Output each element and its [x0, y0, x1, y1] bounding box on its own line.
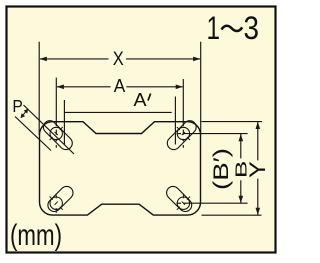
svg-text:B: B — [234, 161, 251, 179]
svg-text:A: A — [134, 89, 148, 110]
svg-text:X: X — [113, 49, 124, 70]
centerline ticks bottom-left — [50, 194, 63, 213]
bolt circle top-left — [50, 127, 62, 139]
plate outline — [40, 122, 201, 215]
bolt circle top-right — [177, 127, 189, 139]
outer frame with cream background — [7, 7, 276, 253]
slot top-right stadium — [165, 118, 199, 152]
centerline ticks top-right — [177, 127, 190, 140]
dimension X — [39, 42, 201, 135]
svg-text:(mm): (mm) — [10, 219, 62, 252]
centerline ticks top-left — [50, 127, 63, 140]
slot bottom-right stadium — [164, 184, 194, 214]
dimension A' — [64, 97, 175, 145]
label 1~3 top right — [206, 10, 258, 46]
dimension A — [56, 78, 183, 148]
dimension Y — [202, 122, 263, 216]
svg-text:A: A — [114, 76, 126, 96]
slot bottom-left stadium — [45, 184, 75, 214]
bolt circle bottom-right — [177, 197, 189, 209]
svg-text:P: P — [12, 96, 23, 116]
slot top-left stadium — [41, 118, 75, 152]
svg-text:(B′): (B′) — [211, 148, 234, 190]
svg-text:1: 1 — [206, 10, 220, 46]
dimension P — [15, 105, 74, 154]
svg-text:3: 3 — [243, 10, 259, 46]
centerline ticks bottom-right — [177, 194, 190, 210]
dimension B — [177, 134, 248, 204]
bolt circle bottom-left — [50, 197, 62, 209]
